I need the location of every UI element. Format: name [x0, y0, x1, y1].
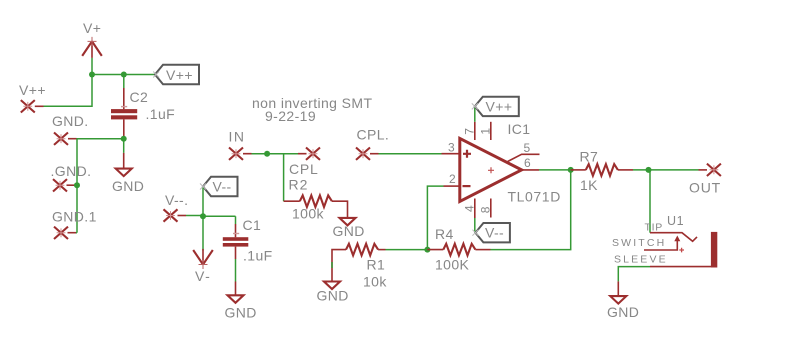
resistor R4 — [427, 244, 490, 256]
wire feedback up — [427, 186, 443, 250]
pin 6 lead — [522, 169, 539, 171]
wire junction down to V++ port — [44, 75, 93, 107]
port X GND. — [54, 133, 68, 145]
wire to C1 — [203, 216, 236, 224]
svg-text:C1: C1 — [243, 217, 262, 233]
svg-text:IN: IN — [229, 129, 246, 145]
wire down to V- — [202, 216, 204, 250]
port origin crosses — [23, 102, 718, 237]
svg-text:V-: V- — [195, 268, 211, 284]
svg-text:GND: GND — [225, 305, 257, 321]
svg-text:V+: V+ — [83, 20, 101, 36]
capacitor C1 — [223, 224, 249, 259]
pin 8 lead — [490, 199, 492, 218]
resistor R1 — [332, 244, 386, 281]
port X CPL node — [306, 148, 320, 160]
port X IN — [229, 148, 243, 160]
svg-text:4: 4 — [462, 205, 476, 212]
jack U1 sleeve pin — [650, 266, 711, 268]
svg-text:OUT: OUT — [689, 180, 721, 196]
junction — [121, 136, 127, 142]
port X V++ — [21, 100, 35, 112]
svg-text:GND.: GND. — [52, 113, 89, 129]
svg-text:SLEEVE: SLEEVE — [614, 253, 668, 265]
pin 7 lead — [474, 122, 476, 140]
wire CPL. to op-amp — [370, 153, 379, 155]
ground below R2 — [340, 218, 356, 226]
wire pin7 to V++ flag — [474, 107, 476, 122]
pin 1 lead — [490, 122, 492, 140]
svg-text:R1: R1 — [367, 257, 386, 273]
svg-text:2: 2 — [449, 172, 456, 186]
svg-text:3: 3 — [448, 141, 455, 155]
svg-text:5: 5 — [524, 141, 531, 155]
svg-text:GND: GND — [607, 304, 639, 320]
svg-text:1: 1 — [478, 128, 492, 135]
pin 4 lead — [474, 199, 476, 219]
svg-text:GND.1: GND.1 — [52, 209, 97, 225]
port X V--. — [164, 209, 178, 221]
svg-text:GND: GND — [317, 288, 349, 304]
svg-text:.GND.: .GND. — [51, 163, 92, 179]
svg-text:TIP: TIP — [645, 222, 663, 234]
svg-text:100K: 100K — [435, 257, 470, 273]
ground below R1 — [324, 282, 340, 290]
junction — [89, 72, 95, 78]
svg-text:7: 7 — [462, 128, 476, 135]
svg-text:CPL.: CPL. — [357, 127, 390, 143]
wire V+ to junction — [91, 58, 93, 75]
wire below C1 — [235, 259, 237, 282]
resistor R7 — [571, 164, 633, 176]
svg-text:TL071D: TL071D — [508, 189, 561, 205]
flag V++ — [155, 65, 199, 84]
capacitor C2 — [111, 75, 137, 139]
svg-text:9-22-19: 9-22-19 — [265, 108, 316, 124]
junction — [424, 247, 430, 253]
svg-text:10k: 10k — [363, 274, 387, 290]
svg-text:V++: V++ — [19, 82, 46, 98]
svg-text:V++: V++ — [486, 99, 513, 115]
junction — [264, 151, 270, 157]
port X GND.1 — [54, 227, 68, 239]
wire R7 to OUT — [633, 169, 699, 171]
jack U1 switch contact — [644, 236, 684, 253]
wire stub below C2 — [123, 139, 125, 153]
port X .GND. — [53, 179, 67, 191]
wire stub GND.1 — [68, 232, 77, 234]
svg-text:C2: C2 — [130, 89, 149, 105]
supply symbol V+ — [82, 37, 102, 58]
wire V--. row — [178, 215, 187, 217]
wire op-amp output — [539, 169, 571, 171]
svg-text:.1uF: .1uF — [243, 248, 273, 264]
svg-text:V--.: V--. — [165, 192, 188, 208]
port X OUT — [707, 164, 721, 176]
wire junction down to jack tip — [649, 170, 651, 233]
svg-text:1K: 1K — [580, 177, 598, 193]
svg-text:V--: V-- — [213, 179, 232, 195]
wire R1 to R4 — [386, 249, 428, 251]
jack U1 body bar — [711, 232, 717, 268]
pin 3 lead — [442, 153, 459, 155]
wire pin4 to V-- flag — [474, 218, 476, 233]
pin 2 lead — [444, 185, 459, 187]
wire down to R2 — [283, 154, 285, 202]
svg-text:GND: GND — [112, 178, 144, 194]
resistor R2 — [284, 195, 348, 217]
wire R4 to output node — [491, 170, 571, 250]
ground below C1 — [228, 282, 244, 303]
flag V-- op-amp — [475, 223, 510, 242]
junction — [121, 72, 127, 78]
svg-text:U1: U1 — [667, 214, 684, 228]
svg-text:R2: R2 — [289, 177, 309, 193]
flag tip markers — [153, 72, 478, 236]
ground below C2 — [116, 153, 132, 176]
wire flag down — [202, 187, 204, 217]
junction — [74, 182, 80, 188]
flag V-- middle — [203, 177, 238, 196]
svg-text:8: 8 — [478, 206, 492, 213]
junction — [200, 213, 206, 219]
op-amp IC1 triangle — [460, 138, 522, 201]
svg-text:100k: 100k — [292, 206, 325, 222]
pin 5 lead — [507, 154, 540, 162]
svg-text:V++: V++ — [166, 67, 193, 83]
svg-text:GND: GND — [333, 223, 365, 239]
wire sleeve to ground — [618, 267, 650, 282]
svg-text:6: 6 — [524, 156, 531, 170]
flag V++ op-amp — [475, 97, 519, 116]
ground sleeve — [610, 281, 626, 303]
wire stub .GND. — [67, 184, 76, 186]
svg-text:V--: V-- — [485, 225, 504, 241]
wire GND. row — [68, 138, 77, 140]
supply symbol V- — [193, 249, 213, 269]
port X CPL. — [356, 148, 370, 160]
wire left rail — [76, 139, 78, 233]
junction — [568, 167, 574, 173]
svg-text:IC1: IC1 — [508, 121, 531, 137]
svg-text:R4: R4 — [435, 226, 454, 242]
wire IN row — [243, 153, 307, 155]
jack U1 tip contact — [650, 233, 697, 242]
svg-text:.1uF: .1uF — [146, 106, 176, 122]
svg-text:CPL: CPL — [289, 161, 319, 177]
svg-text:SWITCH: SWITCH — [612, 237, 666, 249]
wire top horizontal to V++ flag — [92, 74, 155, 76]
junction — [646, 167, 652, 173]
